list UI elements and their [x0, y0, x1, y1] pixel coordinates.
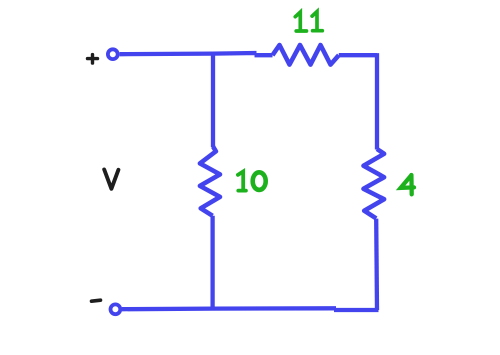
wire: R11 right lead to top-right corner	[339, 53, 377, 57]
value label 10	[238, 172, 266, 191]
wire bottom: node B to - terminal	[122, 306, 213, 311]
terminal - (negative input terminal circle)	[111, 304, 121, 314]
wire top: node A to R11 left lead (slight hand-drawn step at x=255)	[213, 53, 273, 55]
resistor R11 (zigzag, horizontal)	[273, 45, 339, 65]
terminal + (positive input terminal circle)	[108, 49, 118, 59]
wire: right branch vertical (top)	[375, 53, 379, 149]
wire: middle branch vertical from R10 to node B	[210, 216, 214, 309]
wire bottom: step to node B	[213, 306, 336, 311]
wire top: + terminal to node A	[120, 51, 213, 56]
label +	[88, 55, 98, 64]
resistor R10 (zigzag, vertical middle)	[200, 147, 220, 216]
wire: right branch vertical (bottom)	[374, 219, 379, 310]
value label 4	[401, 175, 414, 194]
value label 11	[295, 12, 322, 31]
wire bottom: bottom-right corner to step at x=334	[334, 308, 379, 312]
label - (minus)	[92, 300, 101, 301]
wire: middle branch vertical from node A to R10	[211, 54, 215, 147]
label V (source voltage)	[104, 170, 118, 189]
resistor R4 (zigzag, vertical right)	[364, 149, 385, 218]
